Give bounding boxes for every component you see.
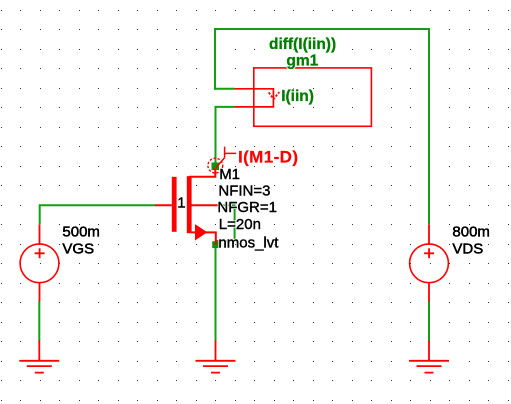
ground under VGS (19, 341, 59, 373)
svg-text:nmos_lvt: nmos_lvt (218, 235, 279, 252)
svg-text:800m: 800m (452, 224, 490, 241)
svg-text:M1: M1 (219, 166, 240, 183)
drain leg (189, 165, 215, 177)
gate lead (155, 204, 172, 206)
model name nmos_lvt (218, 235, 279, 252)
gate bar (172, 177, 177, 232)
probe text I(M1-D) (238, 148, 298, 167)
fin count label 1 (177, 194, 185, 211)
wire: upper lead into current probe gm1 (214, 88, 235, 90)
ground under M1 source (196, 341, 236, 373)
source arrow of M1 (195, 224, 207, 240)
instance name VGS (62, 241, 94, 258)
parameter L=20n (219, 216, 261, 233)
wire: drain node vertical from top rail (214, 28, 216, 90)
svg-text:diff(I(iin)): diff(I(iin)) (269, 36, 336, 53)
svg-text:VGS: VGS (62, 241, 94, 258)
wire: VGS plus up and over to M1 gate (40, 205, 157, 224)
wire: VGS minus down to ground (38, 301, 40, 342)
wire: lower lead out of current probe gm1 (215, 106, 235, 108)
wire: M1 bulk over and down to source node (216, 205, 235, 241)
wire: top rail from drain node to VDS (214, 28, 430, 30)
svg-text:1: 1 (177, 194, 185, 211)
value label diff(I(iin)) (269, 36, 336, 53)
wire: drain vertical down to M1 drain pin (215, 106, 217, 166)
svg-text:500m: 500m (62, 224, 100, 241)
pin label I(iin) (281, 88, 314, 105)
source leg of M1 (191, 232, 216, 244)
transistor M1 (155, 165, 218, 233)
source pin square (212, 241, 219, 248)
wire: VDS minus down to ground (428, 301, 430, 342)
wire: VDS vertical from top rail down (428, 28, 430, 224)
instance name VDS (452, 241, 483, 258)
current probe gm1 (iprobe) (235, 68, 372, 126)
ground under VDS (409, 341, 449, 373)
svg-text:I(M1-D): I(M1-D) (238, 148, 298, 167)
value label 800m (452, 224, 490, 241)
instance name gm1 (286, 52, 318, 69)
svg-text:gm1: gm1 (286, 52, 318, 69)
voltage source VGS (20, 224, 59, 301)
svg-text:NFGR=1: NFGR=1 (217, 199, 277, 216)
svg-text:NFIN=3: NFIN=3 (218, 183, 270, 200)
bulk leg (191, 204, 218, 206)
channel bar (187, 176, 192, 233)
probe flag I(M1-D) on drain (208, 147, 236, 173)
wire: M1 source down to ground (215, 247, 217, 342)
voltage source VDS (410, 224, 449, 301)
drain pin square (212, 163, 220, 171)
parameter NFIN=3 (218, 183, 270, 200)
svg-text:VDS: VDS (452, 241, 483, 258)
svg-text:L=20n: L=20n (219, 216, 261, 233)
svg-text:I(iin): I(iin) (281, 88, 314, 105)
parameter NFGR=1 (217, 199, 277, 216)
value label 500m (62, 224, 100, 241)
instance name M1 (219, 166, 240, 183)
